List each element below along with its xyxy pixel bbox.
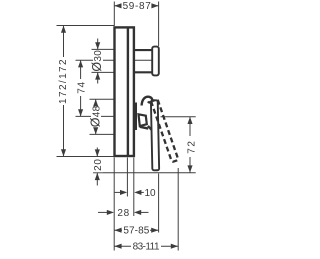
arrow 57-85 right	[151, 228, 158, 233]
svg-text:172/172: 172/172	[58, 58, 69, 104]
cap (end cover)	[152, 47, 159, 76]
dimension line 28 right tail	[140, 211, 149, 213]
arrow 83-111 right	[171, 244, 178, 249]
dimension line 10 left tail	[115, 191, 122, 193]
pivot blob	[139, 114, 147, 126]
extension line below plate front	[133, 158, 135, 217]
small dash lower right of blob	[148, 126, 152, 130]
handle adapter thickening on plate	[134, 103, 137, 131]
dimension line 83-111	[114, 245, 178, 247]
stub top line	[135, 49, 153, 51]
arrow 10 left (outside pointing right)	[120, 190, 127, 195]
arrow D48 top	[93, 99, 98, 106]
arrow D30 bottom (outside pointing up)	[95, 72, 100, 79]
handle hook top	[142, 97, 153, 106]
svg-text:Ø48: Ø48	[88, 105, 102, 127]
arrow D48 bottom	[93, 127, 98, 134]
extension line D48 bottom	[90, 133, 114, 135]
dimension line D30 stem below	[97, 72, 99, 83]
dimension line D30 stem above	[97, 39, 99, 50]
plate outer rectangle	[115, 27, 134, 156]
dimension line 172/172	[63, 26, 65, 157]
extension line handle bottom	[93, 172, 196, 174]
dimension line 28 left tail	[98, 211, 109, 213]
dimension line 57-85	[114, 229, 158, 231]
extension line lever top right	[161, 116, 196, 118]
extension line below cap face	[158, 174, 160, 233]
arrow 28 right (outside pointing left)	[134, 210, 141, 215]
pivot blob tail	[140, 127, 148, 129]
arrow D30 top (outside pointing down)	[95, 42, 100, 49]
extension line lower axis	[76, 115, 114, 117]
svg-text:10: 10	[144, 188, 156, 199]
arrow 57-85 left	[114, 228, 121, 233]
dimension line 74	[80, 60, 82, 116]
dimension line 10 right tail	[140, 191, 144, 193]
extension line plate top	[57, 25, 115, 27]
handle lever bar (solid)	[151, 100, 159, 170]
arrow 172/172 bottom	[61, 149, 66, 156]
svg-text:83-111: 83-111	[133, 242, 160, 253]
svg-text:59-87: 59-87	[123, 1, 152, 12]
extension line below plate back	[113, 158, 115, 251]
arrow 74 top	[78, 60, 83, 67]
extension line stub bottom	[92, 71, 136, 73]
stub bottom line	[135, 71, 153, 73]
extension line below plate middle	[126, 158, 128, 197]
dimension line 59-87	[114, 5, 158, 7]
extension line 59-87 left	[113, 2, 115, 27]
extension line 59-87 right (cap face)	[158, 2, 160, 47]
svg-text:57-85: 57-85	[123, 226, 149, 237]
arrow 83-111 left	[114, 244, 121, 249]
arrow 20 top (outside pointing down)	[95, 149, 100, 156]
plate middle line	[127, 27, 129, 156]
svg-text:74: 74	[76, 81, 87, 93]
arrow 59-87 right	[151, 3, 158, 8]
extension line D48 top	[90, 98, 114, 100]
arrow 72 bottom	[187, 165, 192, 172]
extension line plate bottom	[57, 156, 114, 158]
arrow 10 right (outside pointing left)	[134, 190, 141, 195]
svg-text:28: 28	[117, 208, 129, 219]
dimension texts	[58, 1, 197, 253]
extension line below dashed lever end	[177, 168, 179, 251]
svg-text:Ø30: Ø30	[90, 50, 104, 72]
extension line stub axis	[76, 59, 159, 61]
dashed lever (open position)	[151, 99, 178, 162]
arrow 74 bottom	[78, 109, 83, 116]
arrow 72 top	[187, 117, 192, 124]
svg-text:72: 72	[186, 139, 197, 153]
arrow 20 bottom (outside pointing up)	[95, 173, 100, 180]
arrow 59-87 left	[114, 3, 121, 8]
text gaps (white backgrounds)	[58, 1, 196, 253]
dimension line 72	[189, 117, 191, 173]
arrow 172/172 top	[61, 26, 66, 33]
dimension line 20 stem above	[96, 148, 98, 157]
dimension line 20 stem below	[96, 173, 98, 186]
svg-text:20: 20	[93, 158, 104, 170]
extension line stub top	[92, 48, 136, 50]
fixture body	[115, 27, 179, 170]
arrow 28 left (outside pointing right)	[107, 210, 114, 215]
dimension line D48	[95, 99, 97, 134]
